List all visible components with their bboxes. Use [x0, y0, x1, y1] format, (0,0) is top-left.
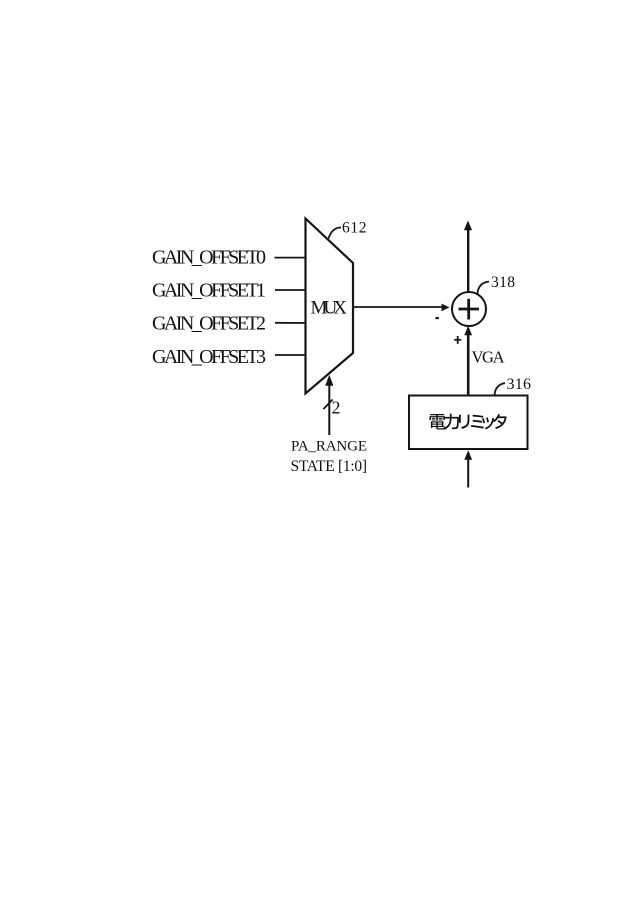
svg-text:GAIN_OFFSET3: GAIN_OFFSET3 [152, 346, 266, 368]
arrowhead MUX output at summer [442, 304, 450, 312]
minus sign at summer input [435, 317, 439, 319]
wire MUX output to summer [354, 306, 444, 308]
leader line for 612 [329, 228, 342, 239]
svg-text:VGA: VGA [472, 348, 505, 367]
svg-text:GAIN_OFFSET1: GAIN_OFFSET1 [152, 279, 266, 301]
mux U612 trapezoid body [306, 219, 354, 394]
plus sign inside summer [459, 308, 480, 311]
wire input GAIN_OFFSET0 [275, 257, 307, 259]
bus width slash [323, 400, 332, 410]
wire select input to MUX [328, 384, 330, 435]
wire summer output up [467, 228, 469, 292]
label 電力リミッタ power limiter [429, 414, 506, 430]
wire input GAIN_OFFSET1 [275, 289, 306, 291]
arrowhead into power limiter from below [464, 450, 472, 460]
svg-text:316: 316 [507, 376, 532, 393]
svg-text:612: 612 [342, 220, 367, 237]
leader line for 318 [478, 282, 490, 295]
wire input GAIN_OFFSET2 [275, 322, 306, 324]
plus sign at summer lower input [454, 339, 461, 341]
svg-text:2: 2 [332, 397, 341, 417]
svg-text:STATE [1:0]: STATE [1:0] [291, 458, 368, 475]
svg-text:GAIN_OFFSET0: GAIN_OFFSET0 [152, 246, 266, 268]
arrowhead into summer from below [464, 326, 472, 335]
svg-text:MUX: MUX [311, 298, 348, 319]
svg-text:318: 318 [491, 274, 515, 291]
summer S318 circle [452, 292, 486, 326]
arrowhead summer output top [464, 221, 472, 231]
svg-text:GAIN_OFFSET2: GAIN_OFFSET2 [152, 313, 266, 335]
power limiter box 316 [409, 396, 528, 450]
svg-text:PA_RANGE: PA_RANGE [291, 439, 367, 455]
wire power limiter to summer [467, 333, 470, 396]
wire input to power limiter from below [467, 458, 469, 488]
leader line for 316 [495, 383, 506, 396]
wire input GAIN_OFFSET3 [275, 354, 306, 356]
arrowhead select into MUX [325, 375, 333, 386]
